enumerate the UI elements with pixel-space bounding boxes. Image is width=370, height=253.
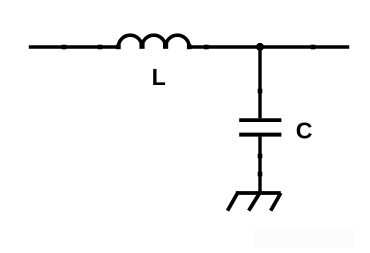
svg-text:L: L bbox=[152, 64, 166, 90]
svg-text:C: C bbox=[296, 117, 313, 143]
